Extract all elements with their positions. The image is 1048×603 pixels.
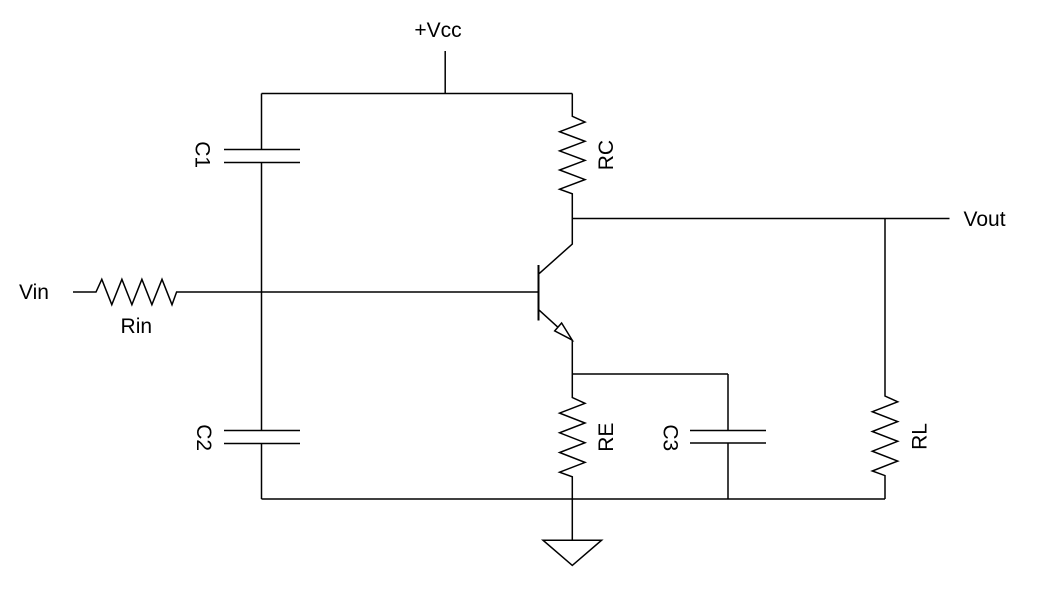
wire: emitter node to C3 — [572, 373, 728, 375]
wire: emitter down to RE node — [571, 340, 573, 374]
svg-text:RL: RL — [908, 423, 931, 450]
svg-text:C1: C1 — [191, 141, 214, 168]
wire: left rail lower segment — [261, 444, 263, 500]
svg-text:Vin: Vin — [19, 281, 49, 304]
resistor Rin with input wire to base — [73, 279, 539, 304]
svg-text:RE: RE — [595, 423, 618, 452]
svg-text:+Vcc: +Vcc — [414, 19, 461, 42]
resistor RL with drop wire — [872, 219, 897, 500]
transistor Q1 base bar — [538, 265, 540, 321]
wire: Vout line — [572, 218, 949, 220]
wire: top rail — [262, 93, 573, 95]
+Vcc power stub wire — [444, 51, 446, 94]
capacitor C2 — [224, 431, 300, 444]
wire: bottom rail — [262, 498, 886, 500]
svg-text:Rin: Rin — [121, 315, 153, 338]
resistor RC — [560, 94, 585, 219]
svg-text:Vout: Vout — [964, 208, 1006, 231]
transistor Q1 emitter arrowhead — [555, 323, 573, 340]
svg-text:RC: RC — [595, 140, 618, 170]
transistor Q1 emitter lead — [539, 310, 572, 340]
wire: left rail middle segment — [261, 163, 263, 431]
svg-text:C3: C3 — [658, 424, 681, 451]
ground symbol — [543, 540, 602, 565]
svg-text:C2: C2 — [192, 424, 215, 451]
resistor RE with ground stub wire — [560, 374, 585, 540]
wire: left rail upper segment — [261, 94, 263, 150]
capacitor C1 — [224, 150, 300, 163]
transistor Q1 collector lead wire — [539, 219, 572, 274]
capacitor C3 with drop wires — [690, 374, 766, 499]
